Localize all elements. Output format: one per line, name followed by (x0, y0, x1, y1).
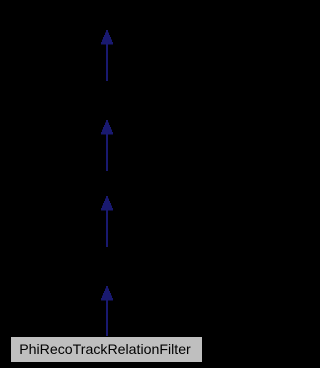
svg-text:PhiRecoTrackRelationFilter: PhiRecoTrackRelationFilter (19, 341, 191, 357)
